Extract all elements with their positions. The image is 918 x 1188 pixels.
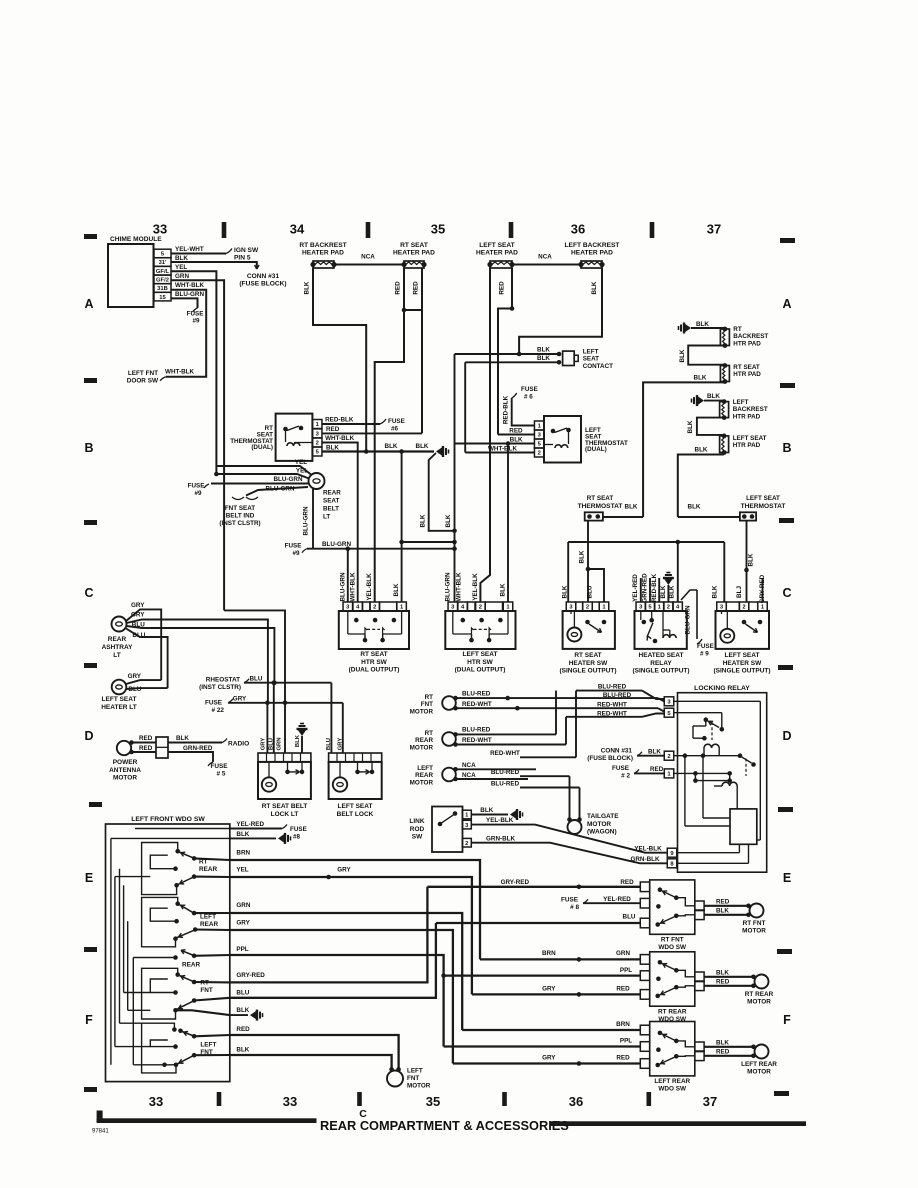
svg-text:LEFT SEAT: LEFT SEAT xyxy=(338,803,373,810)
svg-text:BACKREST: BACKREST xyxy=(733,406,768,413)
svg-text:2: 2 xyxy=(373,605,376,611)
svg-text:BLK: BLK xyxy=(562,585,569,598)
svg-text:F: F xyxy=(783,1013,791,1027)
svg-text:BLK: BLK xyxy=(591,281,598,294)
svg-text:BLK: BLK xyxy=(648,748,661,755)
svg-text:BLK: BLK xyxy=(694,375,707,382)
LEFT seat htr sw (dual output) body xyxy=(445,611,515,649)
svg-text:RED: RED xyxy=(616,1055,630,1062)
svg-text:RED: RED xyxy=(139,745,153,752)
svg-text:BLU: BLU xyxy=(250,676,263,683)
wire BLK bus RT htr-sw-single to left htr-sw-single xyxy=(568,541,724,543)
svg-text:RT FNT: RT FNT xyxy=(743,920,766,927)
svg-text:BLK: BLK xyxy=(385,443,398,450)
tailgate motor (wagon) xyxy=(567,817,572,822)
svg-text:RED: RED xyxy=(236,1026,250,1033)
svg-text:LINK: LINK xyxy=(409,818,424,825)
svg-text:D: D xyxy=(84,729,93,743)
svg-text:RED: RED xyxy=(499,281,506,295)
svg-text:BLK: BLK xyxy=(510,437,523,444)
svg-text:YEL-RED: YEL-RED xyxy=(603,896,631,903)
svg-text:YEL-RED: YEL-RED xyxy=(632,574,639,602)
svg-text:2: 2 xyxy=(667,605,670,611)
svg-text:4: 4 xyxy=(461,605,465,611)
svg-text:RED: RED xyxy=(395,281,402,295)
svg-text:FUSE: FUSE xyxy=(187,311,204,318)
svg-text:HEATER SW: HEATER SW xyxy=(723,660,762,667)
svg-text:YEL: YEL xyxy=(236,867,248,874)
svg-text:RADIO: RADIO xyxy=(228,741,249,748)
rt fnt wdo sw motor wires xyxy=(704,905,749,907)
svg-text:BLK: BLK xyxy=(716,908,729,915)
svg-text:RT SEAT: RT SEAT xyxy=(360,651,387,658)
svg-text:BLU-GRN: BLU-GRN xyxy=(445,572,452,601)
svg-text:GRN-RED: GRN-RED xyxy=(183,745,213,752)
heated seat relay body xyxy=(635,611,687,649)
svg-text:2: 2 xyxy=(316,441,319,447)
rt seat belt lock lt pin row xyxy=(258,753,311,762)
svg-text:FNT: FNT xyxy=(200,987,213,994)
svg-text:E: E xyxy=(783,871,791,885)
svg-text:YEL-RED: YEL-RED xyxy=(236,821,264,828)
ground for RT backrest htr pad xyxy=(685,324,692,333)
svg-text:ROD: ROD xyxy=(410,826,425,833)
svg-text:LEFT FRONT WDO SW: LEFT FRONT WDO SW xyxy=(131,816,205,823)
svg-text:BLK: BLK xyxy=(660,585,667,598)
svg-text:HTR PAD: HTR PAD xyxy=(733,442,761,449)
svg-text:RED-WHT: RED-WHT xyxy=(597,702,627,709)
left rear wdo sw input tabs xyxy=(640,1025,649,1035)
svg-text:BLK: BLK xyxy=(537,355,550,362)
rt rear wdo sw input tabs xyxy=(640,955,649,965)
svg-text:BRN: BRN xyxy=(542,950,556,957)
svg-text:FUSE: FUSE xyxy=(188,483,205,490)
svg-text:BLU: BLU xyxy=(623,914,636,921)
svg-text:LEFT: LEFT xyxy=(407,1068,423,1075)
wire GRY fuse22 bus xyxy=(228,702,343,704)
rt belt lock lamp xyxy=(262,777,276,791)
svg-text:RT FNT: RT FNT xyxy=(661,937,684,944)
locking relay internal upper switch xyxy=(704,717,709,722)
bottom tick marks xyxy=(217,1092,222,1106)
svg-text:BLK: BLK xyxy=(679,349,686,362)
svg-text:PPL: PPL xyxy=(620,967,632,974)
left front wdo sw rail 2 xyxy=(114,877,116,1047)
svg-text:BLU-RED: BLU-RED xyxy=(598,684,627,691)
link rod sw pin 3 xyxy=(462,820,471,829)
svg-text:RED: RED xyxy=(620,879,634,886)
svg-text:HTR SW: HTR SW xyxy=(361,659,388,666)
link rod sw body xyxy=(432,807,463,853)
svg-text:HEATER SW: HEATER SW xyxy=(569,660,608,667)
svg-text:GRN: GRN xyxy=(236,902,250,909)
svg-text:RT: RT xyxy=(425,694,434,701)
svg-text:YEL: YEL xyxy=(295,459,307,466)
fuse 9 to BLU-GRN wire into lamp xyxy=(204,484,209,488)
LEFT seat heater sw (single output) body xyxy=(716,611,770,649)
svg-text:WHT-BLK: WHT-BLK xyxy=(456,572,463,601)
left front wdo sw inner feed BLK xyxy=(111,837,230,839)
locking relay pin5 internal wire xyxy=(674,712,722,714)
left front wdo sw rail 6 xyxy=(132,958,134,1065)
svg-text:HEATER PAD: HEATER PAD xyxy=(571,250,613,257)
svg-text:HEATED SEAT: HEATED SEAT xyxy=(639,652,684,659)
svg-text:GRN: GRN xyxy=(175,273,189,280)
locking relay right rail xyxy=(759,701,761,840)
svg-text:REAR: REAR xyxy=(108,636,127,643)
svg-text:BLK: BLK xyxy=(696,321,709,328)
svg-text:NCA: NCA xyxy=(462,772,476,779)
svg-text:3: 3 xyxy=(639,605,643,611)
svg-text:MOTOR: MOTOR xyxy=(747,1069,771,1076)
svg-text:BRN: BRN xyxy=(616,1021,630,1028)
svg-text:LEFT REAR: LEFT REAR xyxy=(741,1061,777,1068)
LEFT dual sw contacts xyxy=(461,618,466,623)
svg-text:GRY: GRY xyxy=(542,1055,556,1062)
rt seat belt lock lt body xyxy=(258,762,311,799)
RT dual sw contacts xyxy=(354,618,359,623)
top tick marks xyxy=(222,222,227,238)
svg-text:5: 5 xyxy=(161,252,165,258)
chime pin 15 xyxy=(154,292,171,301)
svg-text:3: 3 xyxy=(346,605,350,611)
locking relay lower dots xyxy=(693,778,698,783)
svg-text:BACKREST: BACKREST xyxy=(733,333,768,340)
svg-text:FUSE: FUSE xyxy=(561,897,579,904)
svg-text:FUSE: FUSE xyxy=(205,700,223,707)
RT seat htr sw (dual output) body xyxy=(339,611,409,649)
svg-text:SW: SW xyxy=(412,834,423,841)
contact group LEFT REAR brackets xyxy=(142,897,178,946)
svg-text:33: 33 xyxy=(283,1094,297,1109)
svg-text:BLK: BLK xyxy=(480,807,493,814)
svg-text:1: 1 xyxy=(465,813,469,819)
RT thermostat pin 5 xyxy=(312,447,322,456)
svg-text:LEFT: LEFT xyxy=(417,765,433,772)
svg-text:BLU-GRN: BLU-GRN xyxy=(685,605,692,634)
svg-text:FUSE: FUSE xyxy=(210,763,228,770)
svg-text:RT REAR: RT REAR xyxy=(658,1008,687,1015)
svg-text:(FUSE BLOCK): (FUSE BLOCK) xyxy=(587,755,633,762)
svg-text:HEATER PAD: HEATER PAD xyxy=(393,250,435,257)
svg-text:RT SEAT: RT SEAT xyxy=(733,364,760,371)
svg-text:MOTOR: MOTOR xyxy=(407,1082,431,1089)
locking relay coil 1 xyxy=(704,744,719,748)
svg-text:BLK: BLK xyxy=(326,444,339,451)
RT thermostat internal switch xyxy=(283,427,288,432)
svg-text:GRN: GRN xyxy=(276,737,282,750)
svg-text:RT SEAT: RT SEAT xyxy=(574,652,601,659)
svg-text:2: 2 xyxy=(538,451,541,457)
svg-text:RT SEAT BELT: RT SEAT BELT xyxy=(262,803,308,810)
rt rear wdo sw body xyxy=(650,952,695,1006)
wire riser rt rear blu-red xyxy=(555,691,557,735)
svg-text:2: 2 xyxy=(465,841,468,847)
svg-text:RHEOSTAT: RHEOSTAT xyxy=(206,677,240,684)
svg-text:GRN-RED: GRN-RED xyxy=(642,573,649,603)
svg-text:15: 15 xyxy=(159,295,166,301)
svg-text:FUSE: FUSE xyxy=(521,386,538,393)
svg-text:1: 1 xyxy=(602,605,606,611)
svg-text:34: 34 xyxy=(290,222,305,237)
rt fnt wdo sw motor xyxy=(750,904,764,918)
wire BLU-GRN from relay pin4 to fuse 9 xyxy=(681,590,697,600)
svg-text:WHT-BLK: WHT-BLK xyxy=(165,369,194,376)
svg-text:RT: RT xyxy=(199,859,208,866)
svg-text:YEL-BLK: YEL-BLK xyxy=(472,573,479,601)
svg-text:SEAT: SEAT xyxy=(583,356,599,363)
svg-text:LEFT: LEFT xyxy=(200,914,216,921)
locking relay block feeds xyxy=(684,756,686,826)
svg-text:(FUSE BLOCK): (FUSE BLOCK) xyxy=(239,281,286,288)
svg-text:BLK: BLK xyxy=(445,514,452,527)
svg-text:GF/2: GF/2 xyxy=(156,278,169,284)
svg-text:DOOR SW: DOOR SW xyxy=(127,378,159,385)
svg-text:WHT-BLK: WHT-BLK xyxy=(325,435,354,442)
wire GRN chime to rt belt lock xyxy=(224,610,285,753)
svg-text:REAR: REAR xyxy=(200,921,218,928)
svg-text:GRY: GRY xyxy=(261,738,267,751)
svg-text:BLU-RED: BLU-RED xyxy=(491,780,520,787)
svg-text:RED-WHT: RED-WHT xyxy=(462,737,492,744)
left seat belt lock pin row xyxy=(329,753,382,762)
svg-text:HEATER LT: HEATER LT xyxy=(101,704,137,711)
RT thermostat pin 1 xyxy=(312,420,322,429)
svg-text:BLU-RED: BLU-RED xyxy=(462,727,491,734)
svg-text:LEFT: LEFT xyxy=(200,1042,216,1049)
svg-text:BLK: BLK xyxy=(712,585,719,598)
svg-text:BLU: BLU xyxy=(236,990,249,997)
left seat belt lock body xyxy=(329,762,382,799)
svg-text:MOTOR: MOTOR xyxy=(410,744,434,751)
RT single sw lamp xyxy=(567,628,581,642)
svg-text:YEL-WHT: YEL-WHT xyxy=(175,246,204,253)
svg-text:3: 3 xyxy=(569,605,573,611)
svg-text:BLK: BLK xyxy=(695,447,708,454)
svg-text:33: 33 xyxy=(149,1094,163,1109)
svg-text:GRY: GRY xyxy=(131,602,145,609)
svg-text:# 22: # 22 xyxy=(212,707,225,714)
svg-text:MOTOR: MOTOR xyxy=(113,775,137,782)
svg-text:LOCK LT: LOCK LT xyxy=(271,811,299,818)
svg-text:YEL-BLK: YEL-BLK xyxy=(366,573,373,601)
power antenna motor xyxy=(117,741,131,755)
wire BLK bus right branch down to left single sw pin3 xyxy=(723,542,725,602)
svg-text:RELAY: RELAY xyxy=(650,660,672,667)
svg-text:PIN 5: PIN 5 xyxy=(234,255,251,262)
svg-text:RT BACKREST: RT BACKREST xyxy=(299,242,346,249)
svg-text:MOTOR: MOTOR xyxy=(742,928,766,935)
svg-text:1: 1 xyxy=(400,605,404,611)
svg-text:BLU-RED: BLU-RED xyxy=(491,769,520,776)
svg-text:WHT-BLK: WHT-BLK xyxy=(350,572,357,601)
svg-text:NCA: NCA xyxy=(538,254,552,261)
svg-text:SEAT: SEAT xyxy=(323,498,339,505)
contact group REAR switch xyxy=(192,954,197,959)
svg-text:BELT LOCK: BELT LOCK xyxy=(337,811,374,818)
svg-text:RED: RED xyxy=(650,766,664,773)
svg-text:RT REAR: RT REAR xyxy=(745,991,774,998)
svg-text:RT SEAT: RT SEAT xyxy=(587,495,614,502)
wire BLK ground to left backrest htr pad xyxy=(704,400,724,402)
svg-text:YEL: YEL xyxy=(175,264,187,271)
svg-text:GRY-RED: GRY-RED xyxy=(236,972,265,979)
locking relay body xyxy=(678,693,767,873)
svg-text:HTR PAD: HTR PAD xyxy=(733,371,761,378)
svg-text:RED-WHT: RED-WHT xyxy=(462,701,492,708)
contact group RT REAR switch xyxy=(175,849,180,854)
svg-text:RT: RT xyxy=(200,980,209,987)
wire BLU-GRN branch down to RT htr sw pin3 xyxy=(347,549,349,602)
contact group LEFT FNT brackets xyxy=(142,1023,176,1073)
chime pin GF/2 xyxy=(154,275,171,284)
svg-text:YEL-BLK: YEL-BLK xyxy=(486,817,514,824)
RT seat htr pad resistor xyxy=(720,366,729,382)
svg-text:LEFT: LEFT xyxy=(733,399,749,406)
left seat heater lt lamp xyxy=(112,680,127,695)
rear seat belt lamp xyxy=(309,473,325,489)
wire BLK bus left branch down to rt single sw pin3 xyxy=(567,542,569,602)
svg-text:RED: RED xyxy=(509,427,523,434)
svg-text:3: 3 xyxy=(316,432,320,438)
svg-text:BLK: BLK xyxy=(416,443,429,450)
ground feed above relay pin2 xyxy=(664,579,673,586)
LEFT thermostat internal switch xyxy=(551,429,556,434)
svg-text:GRY: GRY xyxy=(128,673,142,680)
svg-text:LEFT SEAT: LEFT SEAT xyxy=(746,495,780,502)
locking relay pin 9 xyxy=(667,848,677,857)
left front wdo sw body xyxy=(106,824,230,1082)
wire tailgate risers xyxy=(569,776,571,819)
svg-text:BLK: BLK xyxy=(500,583,507,596)
svg-text:1: 1 xyxy=(506,605,510,611)
svg-text:(DUAL): (DUAL) xyxy=(251,444,273,451)
svg-text:(SINGLE OUTPUT): (SINGLE OUTPUT) xyxy=(559,668,616,675)
svg-text:F: F xyxy=(85,1013,93,1027)
svg-text:BLU-GRN: BLU-GRN xyxy=(273,476,302,483)
ground for LEFT backrest htr pad xyxy=(698,396,705,405)
rt fnt wdo sw body xyxy=(650,880,695,934)
svg-text:BLK: BLK xyxy=(687,420,694,433)
wire BLK ground to RT backrest htr pad xyxy=(691,327,725,329)
svg-text:CONN #31: CONN #31 xyxy=(601,747,633,754)
link rod sw contacts xyxy=(438,822,443,827)
svg-text:BLK: BLK xyxy=(716,970,729,977)
wire heated seat relay pin4 riser xyxy=(677,542,679,602)
svg-text:PPL: PPL xyxy=(620,1038,632,1045)
svg-text:GF/L: GF/L xyxy=(156,269,170,275)
contact group LEFT FNT switch xyxy=(172,1027,177,1032)
left front wdo sw rail 3 xyxy=(119,869,121,1024)
svg-text:LEFT SEAT: LEFT SEAT xyxy=(725,652,760,659)
left rear wdo sw motor wires xyxy=(704,1046,754,1048)
locking relay pin 1 xyxy=(664,769,674,778)
svg-text:(DUAL OUTPUT): (DUAL OUTPUT) xyxy=(349,667,400,674)
wire from left seat pad right leg xyxy=(498,268,512,435)
svg-text:2: 2 xyxy=(742,605,745,611)
wire BLK branch down to htr sw pin1 xyxy=(401,452,403,603)
locking relay internal lower switch xyxy=(738,753,743,758)
svg-text:GRN: GRN xyxy=(616,950,630,957)
svg-text:2: 2 xyxy=(586,605,589,611)
rt rear motor (window) xyxy=(442,732,456,746)
svg-text:A: A xyxy=(782,297,791,311)
svg-text:E: E xyxy=(85,871,93,885)
svg-text:FNT: FNT xyxy=(200,1049,213,1056)
svg-text:GRY: GRY xyxy=(131,612,145,619)
svg-text:REAR: REAR xyxy=(415,772,433,779)
svg-text:GRY-RED: GRY-RED xyxy=(501,879,530,886)
svg-text:REAR: REAR xyxy=(415,737,433,744)
svg-text:31': 31' xyxy=(159,260,167,266)
locking relay coil 2 xyxy=(722,782,737,786)
rt fnt wdo sw internal contacts xyxy=(658,887,663,892)
wire GRY down to left belt lock xyxy=(342,703,344,753)
RT single sw contacts xyxy=(585,620,590,625)
svg-text:BLK: BLK xyxy=(716,1040,729,1047)
svg-text:FUSE: FUSE xyxy=(285,543,302,550)
svg-text:BLU-GRN: BLU-GRN xyxy=(340,572,347,601)
locking relay pin 3 xyxy=(664,697,674,706)
svg-text:B: B xyxy=(782,441,791,455)
LEFT seat htr pad resistor xyxy=(720,436,729,453)
svg-text:RED: RED xyxy=(716,1049,730,1056)
svg-text:BLK: BLK xyxy=(707,393,720,400)
svg-text:WDO SW: WDO SW xyxy=(658,944,687,951)
wire BLK branch on pin1 feed xyxy=(399,540,404,545)
rt rear wdo sw motor wires xyxy=(704,976,754,978)
svg-text:BLK: BLK xyxy=(625,504,638,511)
locking relay pin 5 xyxy=(664,708,674,717)
chime pin 5 xyxy=(154,249,171,258)
svg-text:RED: RED xyxy=(413,281,420,295)
svg-text:D: D xyxy=(782,729,791,743)
svg-text:(SINGLE OUTPUT): (SINGLE OUTPUT) xyxy=(713,668,770,675)
svg-text:BLK: BLK xyxy=(175,255,188,262)
svg-text:HTR PAD: HTR PAD xyxy=(733,413,761,420)
svg-text:REAR: REAR xyxy=(182,962,200,969)
rt rear wdo sw output tabs xyxy=(695,972,704,982)
svg-text:RED: RED xyxy=(716,979,730,986)
svg-text:3: 3 xyxy=(538,433,542,439)
svg-text:CONN #31: CONN #31 xyxy=(247,273,280,280)
svg-text:36: 36 xyxy=(569,1094,583,1109)
wire BLU down to rt belt lock xyxy=(273,683,275,753)
left rear wdo sw output tabs xyxy=(695,1042,704,1052)
wire BLK branch to left htr sw dual pin1 xyxy=(507,444,509,603)
svg-text:33: 33 xyxy=(153,222,167,237)
svg-text:BLK: BLK xyxy=(419,514,426,527)
left rear wdo sw motor xyxy=(755,1045,769,1059)
LEFT thermostat pin 3 xyxy=(534,430,544,439)
relay pin9 internal xyxy=(677,852,739,854)
contact group RT FNT brackets xyxy=(142,968,178,1019)
svg-text:REAR: REAR xyxy=(323,490,341,497)
LEFT backrest htr pad resistor xyxy=(720,402,729,418)
rt fnt motor (window) xyxy=(442,696,456,710)
antenna connector xyxy=(156,737,168,758)
svg-text:B: B xyxy=(84,441,93,455)
svg-text:5: 5 xyxy=(667,711,671,717)
svg-text:A: A xyxy=(84,297,93,311)
svg-text:#6: #6 xyxy=(391,426,399,433)
svg-text:FNT: FNT xyxy=(421,701,433,708)
fnt seat belt ind label xyxy=(232,497,258,500)
svg-text:RT SEAT: RT SEAT xyxy=(400,242,428,249)
svg-text:4: 4 xyxy=(356,605,360,611)
svg-text:LEFT SEAT: LEFT SEAT xyxy=(733,435,767,442)
svg-text:3: 3 xyxy=(667,700,671,706)
